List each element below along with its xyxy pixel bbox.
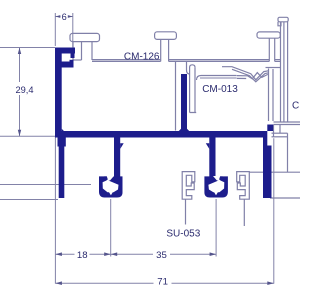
SU-053 hook1 outline [182,172,195,200]
SU-053 leader line from hook1 [185,199,187,224]
arrow 18 left [55,252,62,256]
dim line 35 [111,253,153,255]
SU-053 hook2 outline [237,172,250,200]
profile F spine [55,48,62,138]
wire extension vertical cup2 x216 [215,199,217,257]
T-slot cap U1 outline [70,33,100,41]
wire extension line 29,4 top [0,47,55,49]
wire extension vertical left x56 [54,136,56,284]
cup1 opening slot [106,176,114,182]
CM-013 snap zigzag upper blade bottom edge [232,69,269,82]
pocket bottom [73,59,82,61]
svg-text:CM-0: CM-0 [292,101,300,112]
svg-text:CM-126: CM-126 [124,52,160,63]
cup1 hanger bar [114,138,120,179]
profile center divider [181,74,187,131]
T-slot cap U2 outline [155,32,177,40]
profile F top arm lip [71,54,75,59]
svg-text:CM-013: CM-013 [202,84,238,95]
CM-013 left channel n-top [190,65,195,113]
arrow dim6 right [68,15,73,18]
arrow 29,4 up [18,48,21,55]
profile left leg [59,147,65,199]
T-slot stem3 walls [268,38,270,61]
small frame verticals above band end [273,125,275,137]
band bottom outline right continuation [272,132,288,134]
arrow 29,4 down [18,130,21,137]
cup2 hanger flag [206,143,210,149]
wire dim line 6 [55,16,60,18]
svg-text:35: 35 [156,250,167,261]
divider-band fillets [179,129,181,131]
arrow 71 left [55,281,62,285]
cup2 inner void [208,181,224,193]
spine-band fillet [62,129,64,131]
profile right riser [267,125,273,132]
wire extension line dim6 left [54,13,56,46]
right tall wall top hook cap [278,17,288,22]
profile main band [55,131,267,138]
svg-text:SU-053: SU-053 [166,229,200,240]
T-slot cap U3 outline [257,32,280,38]
profile left stub [58,138,66,147]
profile F top arm [55,48,75,54]
right tall wall top hook lip [278,22,281,26]
pocket left wall [72,42,74,60]
wire extension line 29,4 bottom [0,135,57,137]
deck double line segment B [169,59,270,61]
CM-126 inner right wall [175,61,177,130]
svg-text:18: 18 [77,250,88,261]
wire left reference line A [0,184,91,186]
deck double line segment A [92,59,161,61]
CM-013 body top-left rounded corner [197,76,237,81]
cup1 hanger flag [120,143,124,149]
cup1 inner void [103,181,119,193]
svg-text:29,4: 29,4 [15,85,33,95]
wire extension line dim6 right [72,13,74,47]
cup1 lip tip [103,176,108,181]
right lower horizontal line A [249,171,300,173]
wire extension vertical right x274 [273,138,275,283]
deck double line segment C [275,59,281,61]
cup1 body block [99,176,123,197]
wire dim line 29,4 vertical [19,48,21,83]
cup2 hanger bar [209,138,215,179]
wire extension vertical cup1 x110 [110,199,112,257]
CM-013 top line right part [266,67,281,69]
arrow 35 right [210,252,217,256]
CM-013 right wall double [268,69,270,122]
right lower vertical B [287,133,289,172]
svg-text:6: 6 [62,12,67,22]
profile F middle arm [55,62,74,68]
profile right drop [263,138,272,199]
dim line 18 [55,253,74,255]
CM-013 snap zigzag upper blade top edge [222,67,268,80]
right lower horizontal line B [270,197,300,199]
svg-text:71: 71 [157,277,168,288]
arrow 18/35 middle tick [104,252,111,256]
wire left reference line B [0,199,58,201]
profile F middle arm lip [70,60,74,62]
cup2 opening slot [213,176,221,182]
CM-013 snap zigzag lower strip [237,73,268,79]
CM-013 snap zigzag lower blade bottom edge [237,77,246,79]
arrow 71 right [267,281,274,285]
cup2 lip tip [219,176,224,181]
right tall wall verticals [280,22,282,122]
arrow dim6 left [55,15,60,18]
T-slot stem1 walls [81,42,83,60]
cup1 inner bottom notch [109,192,113,195]
SU-053 leader line from hook2 [243,199,245,226]
cup2 body block [204,176,228,197]
T-slot stem2 walls [160,39,162,61]
fixed frame line right edge top [274,121,301,123]
dim line 71 [55,282,153,284]
cup2 inner bottom notch [214,192,218,195]
